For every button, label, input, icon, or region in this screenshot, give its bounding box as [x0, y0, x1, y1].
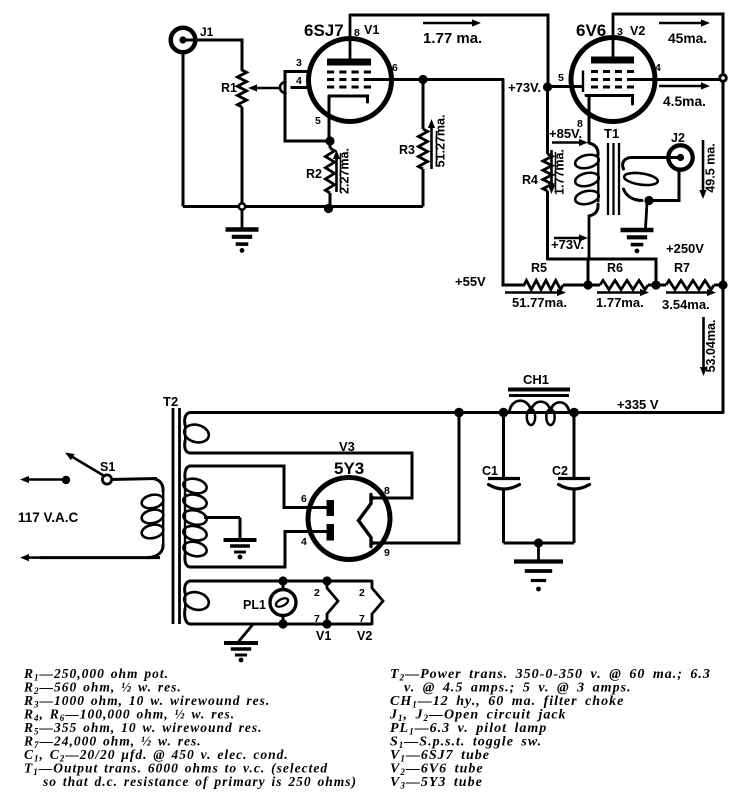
svg-text:4: 4: [296, 75, 302, 87]
svg-text:1.77ma.: 1.77ma.: [596, 295, 644, 310]
svg-text:+55V: +55V: [455, 274, 486, 289]
input jack J1: [171, 28, 196, 53]
wire +55V feed: [503, 80, 524, 286]
V2 heater symbol: [372, 581, 383, 624]
current arrow 1.77ma. R6: [597, 291, 640, 294]
resistor R7: [656, 284, 666, 287]
svg-text:so that d.c. resistance of pri: so that d.c. resistance of primary is 25…: [42, 774, 357, 789]
svg-text:C2: C2: [552, 464, 568, 478]
wire HV secondary top to V3 pin6: [190, 466, 327, 508]
wire pin3 to cathode junction: [285, 72, 330, 142]
svg-text:V2: V2: [630, 24, 645, 38]
svg-text:+85V.: +85V.: [549, 126, 582, 141]
svg-text:+73V.: +73V.: [508, 80, 541, 95]
svg-text:3: 3: [296, 57, 302, 69]
svg-text:49.5 ma.: 49.5 ma.: [704, 143, 718, 192]
svg-text:6: 6: [392, 62, 398, 74]
svg-text:8: 8: [384, 485, 390, 497]
svg-text:3.54ma.: 3.54ma.: [662, 297, 710, 312]
svg-text:5: 5: [315, 115, 321, 127]
power transformer T2 core: [172, 408, 175, 624]
T2 6.3V winding: [185, 581, 190, 593]
svg-text:6SJ7: 6SJ7: [304, 21, 344, 40]
current arrow 51.27ma.: [430, 128, 433, 169]
svg-text:CH1: CH1: [523, 372, 549, 387]
tube V1 6SJ7: [309, 39, 392, 122]
heater bus bottom: [190, 623, 372, 626]
wire J1 tip to R1 top: [187, 40, 242, 70]
R1 wiper arrow: [257, 87, 280, 90]
ground symbol filter: [537, 543, 540, 560]
svg-text:6: 6: [301, 493, 307, 505]
node junction R3 top: [371, 78, 503, 81]
wire J1 sleeve to ground rail: [182, 52, 185, 207]
wire V3 pin8 filament: [190, 453, 412, 498]
svg-text:R7: R7: [674, 261, 690, 275]
svg-text:R2: R2: [306, 167, 322, 181]
wire V1 plate to +73V bus: [350, 15, 548, 87]
resistor R2: [329, 141, 332, 148]
svg-text:4: 4: [655, 62, 661, 74]
svg-text:R6: R6: [607, 261, 623, 275]
svg-text:7: 7: [359, 613, 365, 625]
svg-text:9: 9: [384, 547, 390, 559]
svg-text:V1: V1: [316, 629, 331, 643]
svg-text:5Y3: 5Y3: [334, 459, 364, 478]
svg-text:4.5ma.: 4.5ma.: [663, 94, 706, 109]
T2 primary winding: [153, 479, 163, 492]
wire secondary to ground node: [624, 189, 643, 201]
resistor R5: [524, 280, 563, 289]
potentiometer R1: [237, 70, 246, 107]
V1 heater symbol: [322, 576, 331, 585]
svg-text:R4: R4: [522, 173, 538, 187]
wire screen pin4 to bus: [634, 78, 723, 81]
svg-text:+250V: +250V: [666, 241, 704, 256]
svg-text:V1: V1: [364, 23, 379, 37]
svg-text:1.77 ma.: 1.77 ma.: [423, 30, 482, 47]
output jack J2: [668, 145, 692, 169]
tube V3 5Y3: [308, 478, 390, 560]
svg-text:51.77ma.: 51.77ma.: [512, 295, 567, 310]
current arrow 49.5 ma.: [702, 140, 705, 190]
transformer T1 primary winding: [589, 143, 598, 155]
svg-text:3: 3: [617, 26, 623, 38]
svg-text:T2: T2: [163, 394, 178, 409]
svg-text:R3: R3: [399, 143, 415, 157]
pilot lamp PL1: [278, 576, 287, 585]
svg-text:51.27ma.: 51.27ma.: [434, 115, 448, 168]
node +73V under T1: [554, 237, 579, 240]
AC line lead lower: [40, 556, 160, 559]
capacitor C2: [573, 413, 576, 479]
svg-text:5: 5: [558, 72, 564, 84]
svg-text:R5: R5: [531, 261, 547, 275]
wire J2 tip to T1 secondary: [623, 158, 677, 170]
current arrow 45ma.: [659, 22, 701, 25]
svg-text:J1: J1: [200, 25, 214, 39]
svg-text:J2: J2: [671, 131, 685, 145]
svg-text:2.27ma.: 2.27ma.: [338, 148, 352, 194]
wire V2 plate to +335V bus: [613, 14, 723, 413]
svg-text:C1: C1: [482, 464, 498, 478]
tube V2 6V6: [571, 38, 655, 122]
svg-text:PL1: PL1: [243, 598, 266, 612]
ground rail top-left: [183, 205, 423, 208]
svg-text:2: 2: [359, 587, 365, 599]
svg-text:7: 7: [314, 613, 320, 625]
current arrow 53.04ma.: [702, 317, 705, 367]
transformer T1 secondary loop: [623, 171, 658, 187]
ground symbol heater: [239, 626, 252, 642]
ground symbol T1: [646, 203, 648, 228]
svg-text:V2: V2: [357, 629, 372, 643]
current arrow 51.77ma.: [505, 291, 557, 294]
svg-text:4: 4: [301, 536, 307, 548]
capacitor C1: [502, 413, 505, 479]
wire J2 sleeve: [649, 169, 679, 201]
current arrow 1.77 ma.: [423, 22, 472, 25]
T2 center tap to ground: [204, 516, 240, 519]
svg-text:6V6: 6V6: [576, 21, 606, 40]
current arrow 2.27ma.: [335, 159, 338, 192]
svg-text:R1: R1: [221, 81, 237, 95]
filter choke CH1: [499, 408, 509, 418]
current arrow 4.5ma.: [659, 85, 701, 88]
heater bus top: [190, 580, 372, 583]
crossover hop on grid wire: [280, 82, 286, 93]
wire pin4 grid: [291, 86, 311, 89]
ground symbol main: [241, 209, 244, 228]
svg-text:2: 2: [314, 587, 320, 599]
svg-text:8: 8: [354, 27, 360, 39]
resistor R3: [422, 80, 425, 130]
svg-text:S1: S1: [100, 460, 115, 474]
svg-text:T1: T1: [604, 126, 619, 141]
current arrow 1.77ma. R4: [550, 150, 553, 185]
wire C1 C2 common: [504, 542, 575, 545]
T2 5V winding: [185, 413, 190, 426]
current arrow 3.54ma.: [666, 291, 707, 294]
svg-text:53.04ma.: 53.04ma.: [704, 320, 718, 373]
svg-text:+335 V: +335 V: [617, 397, 659, 412]
svg-text:117 V.A.C: 117 V.A.C: [18, 510, 79, 525]
resistor R4: [546, 87, 549, 154]
wire V3 pin9 to +335V: [374, 413, 459, 544]
AC line lead upper: [62, 476, 70, 484]
transformer T1 core: [607, 143, 609, 215]
wire V2 grid pin5: [548, 85, 583, 88]
resistor R6: [588, 284, 600, 287]
main +335V line: [190, 411, 723, 414]
T2 HV secondary winding: [185, 466, 190, 478]
svg-text:45ma.: 45ma.: [668, 31, 707, 46]
svg-text:1.77ma.: 1.77ma.: [553, 149, 567, 195]
svg-text:+73V.: +73V.: [551, 237, 584, 252]
wire HV secondary bottom to V3 pin4: [190, 532, 327, 568]
